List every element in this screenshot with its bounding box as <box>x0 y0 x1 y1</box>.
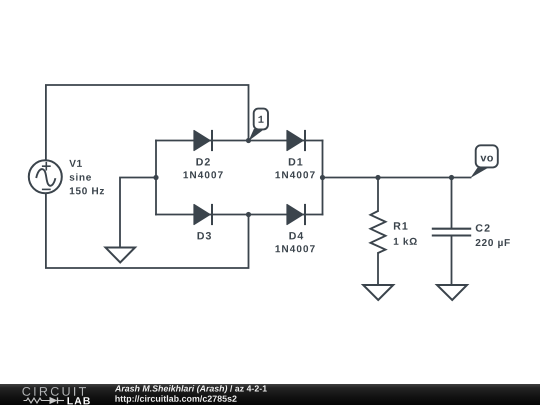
junction dot bridge right node <box>320 175 325 180</box>
V1 value label <box>69 160 104 195</box>
wire bridge top side <box>156 140 323 142</box>
wire bridge bottom side <box>156 214 323 216</box>
wire bridge left side <box>155 141 157 215</box>
ground (C2) <box>437 285 467 300</box>
footer bar <box>0 384 540 405</box>
footer url line <box>115 395 236 403</box>
ground (R1) <box>363 285 393 300</box>
D2 label <box>184 158 223 178</box>
capacitor C2 <box>432 229 471 236</box>
CircuitLab logo resistor-diode glyph <box>24 397 65 403</box>
wire R1 bottom <box>377 253 379 285</box>
footer credit line <box>115 385 267 393</box>
D1 label <box>276 158 315 178</box>
wire output node to vo flag <box>323 177 471 179</box>
wire C2 top <box>451 178 453 229</box>
wire V1 bottom to bridge bottom middle <box>46 194 249 268</box>
junction dot bridge bottom middle <box>246 212 251 217</box>
wire left node to ground <box>120 178 156 248</box>
voltage source V1 <box>29 160 62 193</box>
diode D2 <box>194 130 212 151</box>
diode D3 <box>194 204 212 225</box>
D4 label <box>276 232 315 252</box>
junction dot node 1 <box>246 138 251 143</box>
wire V1 top to node 1 <box>46 85 249 160</box>
junction dot C2 top node <box>449 175 454 180</box>
D3 label <box>198 232 212 240</box>
CircuitLab logo CIRCUIT <box>22 387 86 396</box>
C2 label <box>476 224 510 248</box>
resistor R1 <box>371 211 386 253</box>
junction dot bridge left node <box>153 175 158 180</box>
diode D1 <box>287 130 305 151</box>
node vo flag <box>470 145 498 178</box>
junction dot R1 top node <box>375 175 380 180</box>
ground (source side) <box>106 248 136 263</box>
CircuitLab logo LAB <box>68 397 90 404</box>
diode D4 <box>287 204 305 225</box>
node 1 flag <box>249 109 268 141</box>
wire R1 top <box>377 178 379 212</box>
R1 label <box>394 222 417 245</box>
wire bridge right side <box>322 141 324 215</box>
wire C2 bottom <box>451 236 453 285</box>
